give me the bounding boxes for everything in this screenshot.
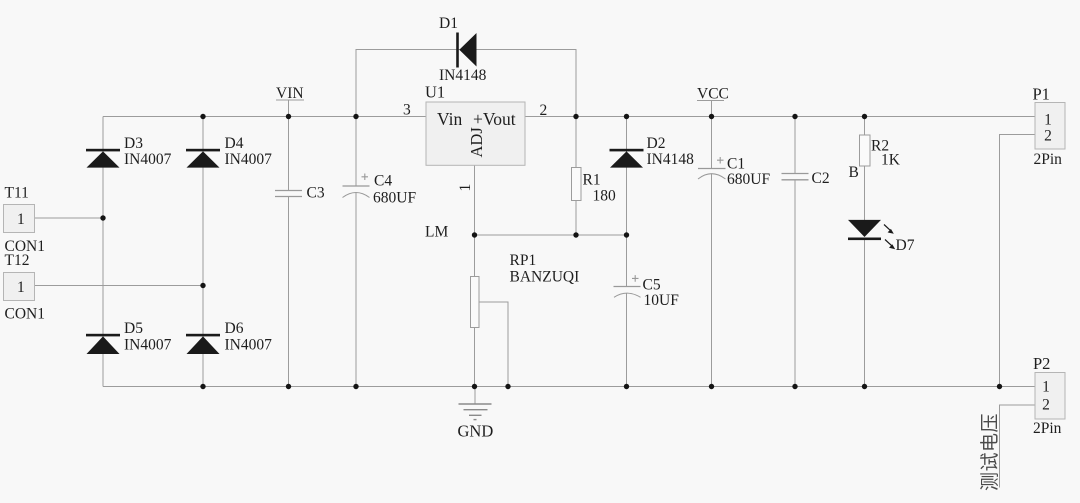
svg-text:U1: U1 [425,83,445,102]
svg-text:BANZUQI: BANZUQI [510,269,580,286]
svg-text:D7: D7 [896,237,915,254]
svg-text:1: 1 [17,279,25,296]
svg-text:R1: R1 [583,171,601,188]
svg-text:VIN: VIN [276,85,304,102]
svg-text:1K: 1K [881,152,901,169]
svg-text:GND: GND [458,422,494,441]
svg-text:C1: C1 [727,156,745,173]
svg-text:2Pin: 2Pin [1034,151,1063,168]
svg-text:D4: D4 [225,135,244,152]
svg-text:C3: C3 [307,185,325,202]
svg-text:VCC: VCC [697,86,729,103]
svg-text:D3: D3 [124,135,143,152]
svg-text:1: 1 [457,184,474,192]
svg-text:T12: T12 [5,252,30,269]
svg-text:680UF: 680UF [373,189,416,206]
svg-text:C4: C4 [374,172,392,189]
svg-text:180: 180 [593,187,617,204]
svg-text:2Pin: 2Pin [1033,420,1062,437]
svg-text:P2: P2 [1033,354,1050,373]
svg-text:D2: D2 [647,135,666,152]
svg-text:1: 1 [1044,112,1052,129]
svg-text:IN4007: IN4007 [225,151,273,168]
svg-text:测试电压: 测试电压 [979,413,1001,491]
svg-text:IN4007: IN4007 [124,337,172,354]
svg-text:D1: D1 [439,15,458,32]
svg-text:680UF: 680UF [727,171,770,188]
svg-text:LM: LM [425,224,448,241]
svg-text:1: 1 [17,211,25,228]
svg-text:ADJ: ADJ [467,127,486,158]
svg-text:1: 1 [1042,379,1050,396]
svg-text:2: 2 [540,102,548,119]
svg-text:2: 2 [1042,397,1050,414]
svg-text:2: 2 [1044,128,1052,145]
svg-text:10UF: 10UF [644,292,680,309]
svg-text:D6: D6 [225,320,244,337]
svg-text:P1: P1 [1033,85,1050,104]
svg-text:3: 3 [403,102,411,119]
svg-text:B: B [849,164,859,181]
svg-text:D5: D5 [124,320,143,337]
svg-text:C5: C5 [643,277,661,294]
svg-text:IN4148: IN4148 [647,151,695,168]
svg-text:C2: C2 [812,170,830,187]
svg-text:IN4007: IN4007 [225,337,273,354]
svg-text:T11: T11 [5,185,29,202]
svg-text:IN4148: IN4148 [439,67,487,84]
svg-text:RP1: RP1 [510,252,537,269]
svg-text:Vin: Vin [437,109,462,129]
svg-text:+Vout: +Vout [473,109,516,129]
svg-text:CON1: CON1 [5,306,45,323]
svg-text:IN4007: IN4007 [124,151,172,168]
